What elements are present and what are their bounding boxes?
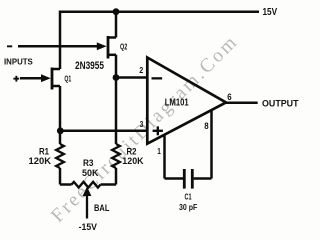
svg-text:120K: 120K <box>29 156 52 167</box>
svg-text:30 pF: 30 pF <box>179 203 198 212</box>
svg-text:C1: C1 <box>185 192 192 201</box>
svg-text:LM101: LM101 <box>165 98 189 109</box>
svg-text:2: 2 <box>139 66 143 75</box>
svg-text:6: 6 <box>227 92 231 103</box>
svg-text:50K: 50K <box>82 168 99 179</box>
svg-text:120K: 120K <box>122 156 143 167</box>
svg-text:Q1: Q1 <box>64 74 71 83</box>
svg-text:1: 1 <box>157 147 161 156</box>
svg-text:R2: R2 <box>127 146 137 156</box>
svg-text:INPUTS: INPUTS <box>4 57 33 67</box>
svg-text:BAL: BAL <box>94 203 110 213</box>
svg-text:OUTPUT: OUTPUT <box>262 99 299 109</box>
svg-text:R1: R1 <box>39 146 49 156</box>
svg-text:-15V: -15V <box>79 222 97 232</box>
svg-text:R3: R3 <box>83 158 94 168</box>
svg-text:Q2: Q2 <box>120 42 128 51</box>
svg-text:15V: 15V <box>263 7 278 18</box>
svg-text:3: 3 <box>140 119 144 129</box>
svg-text:8: 8 <box>204 121 209 132</box>
svg-text:2N3955: 2N3955 <box>75 60 104 72</box>
